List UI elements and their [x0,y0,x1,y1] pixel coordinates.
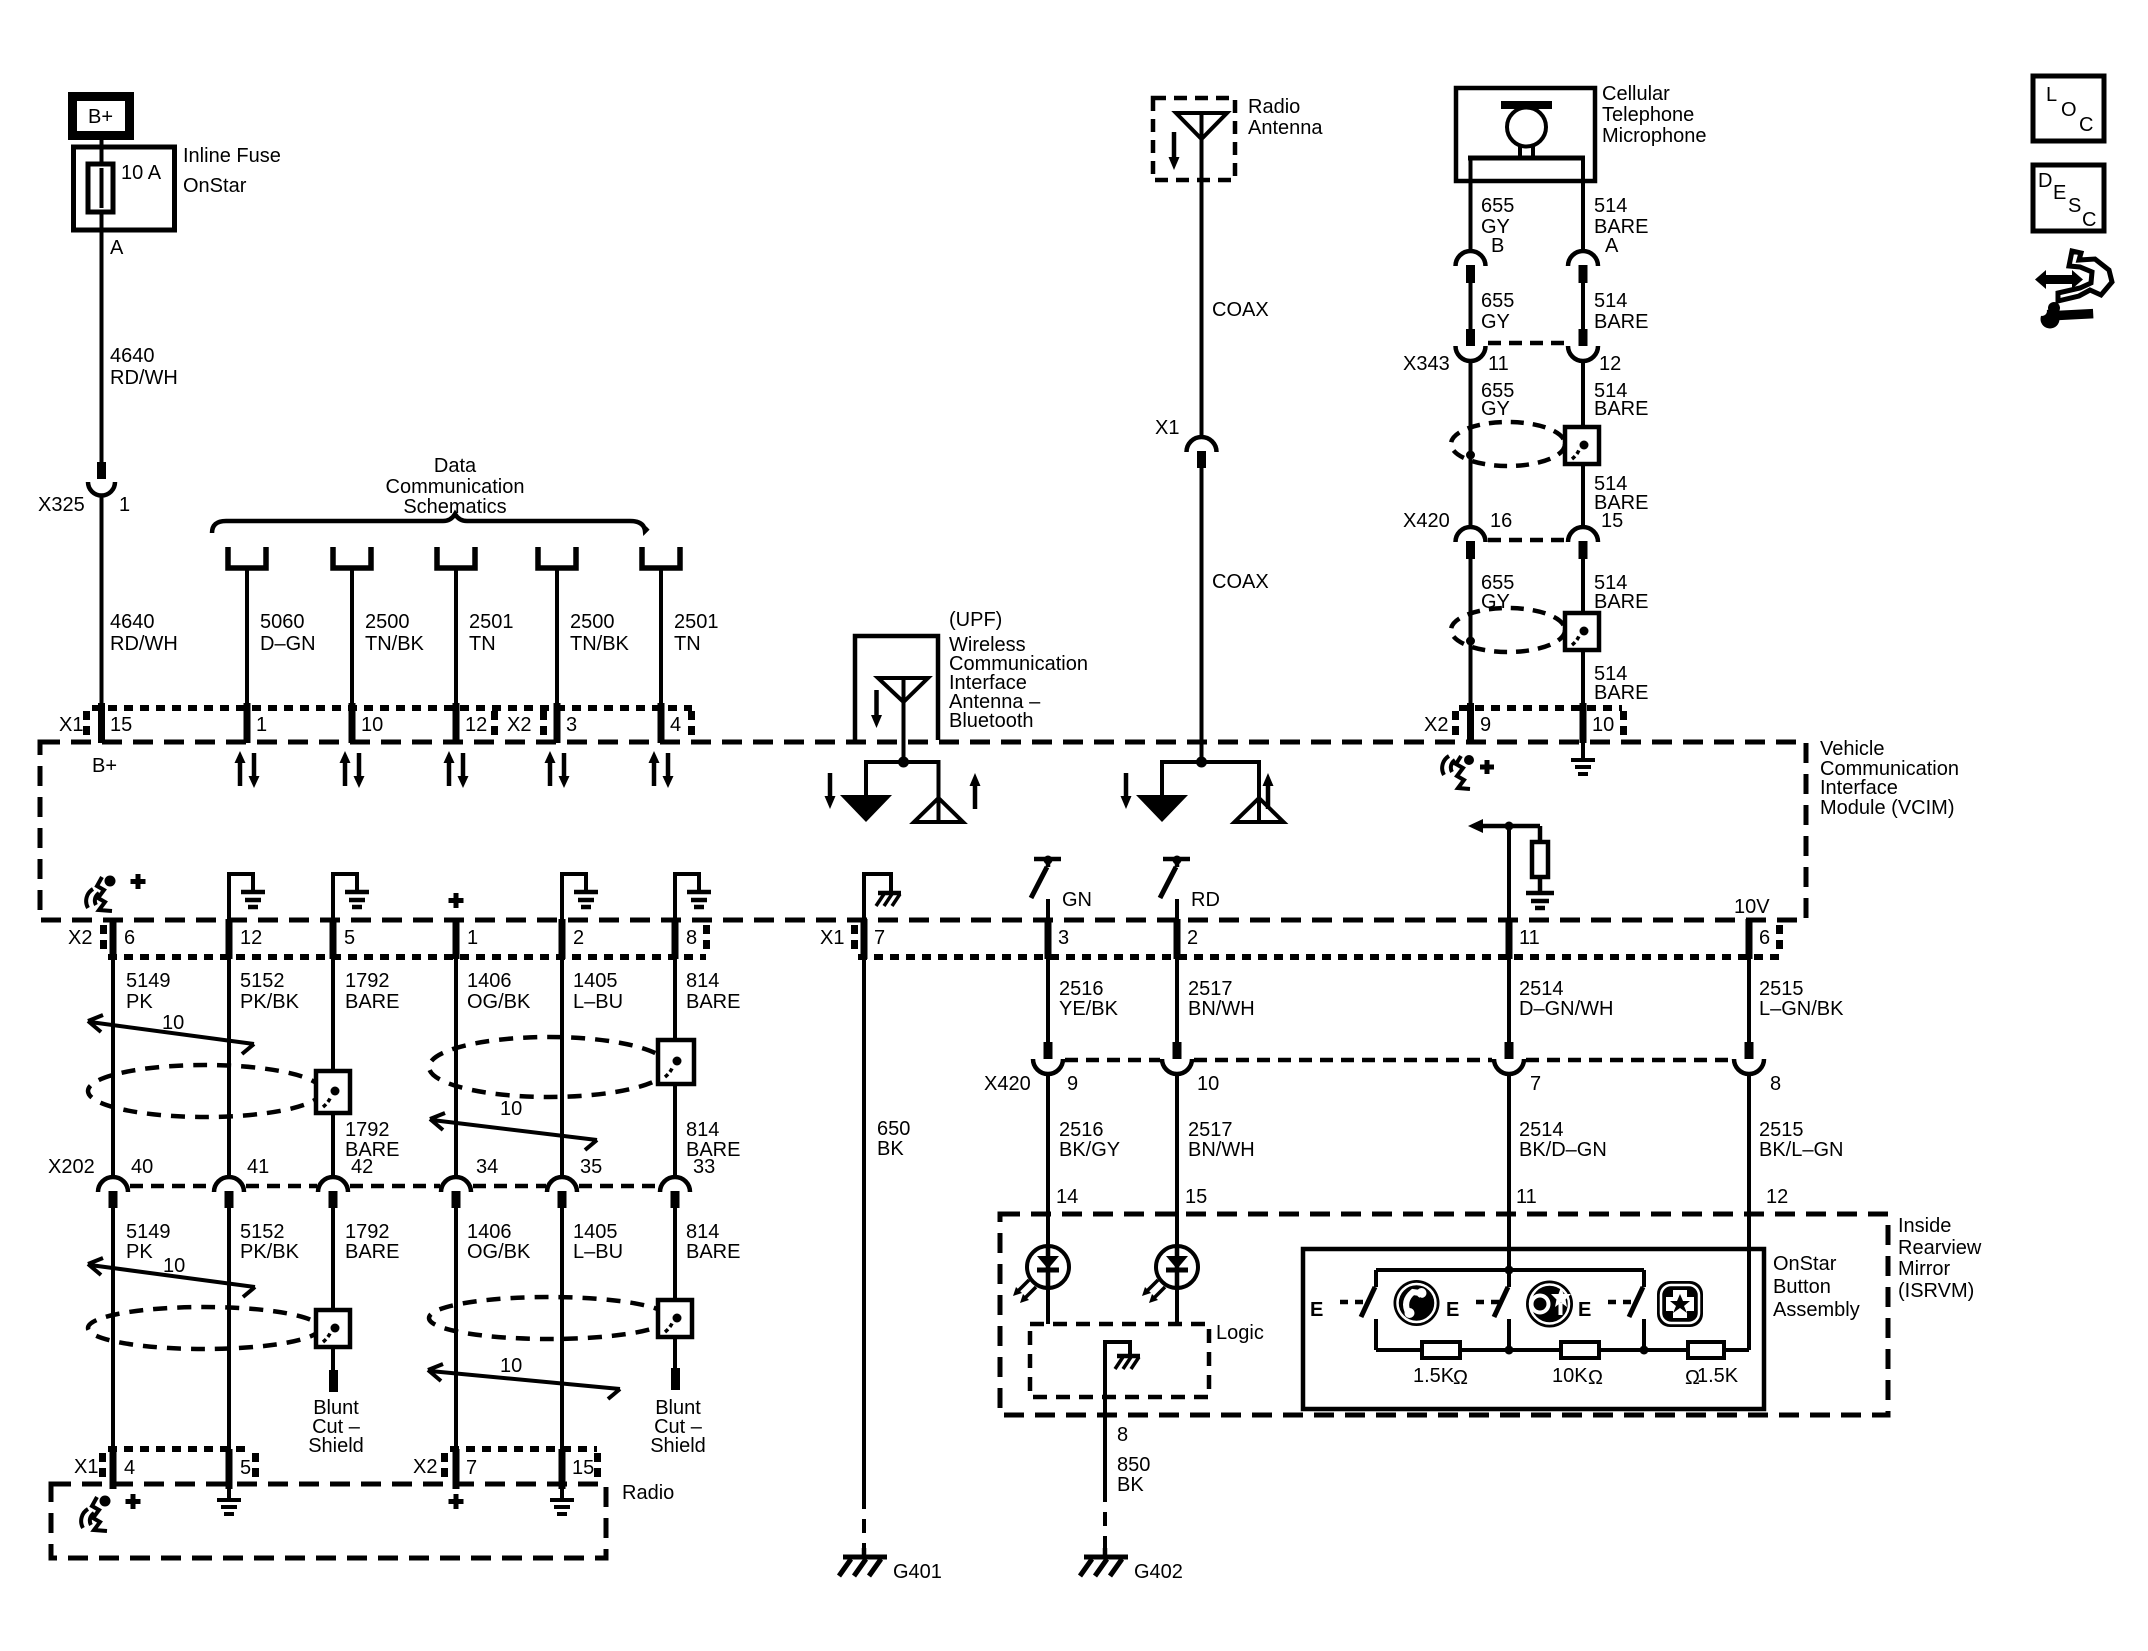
svg-text:Ω: Ω [1588,1367,1603,1389]
internal ground pin 8 [675,874,711,919]
svg-text:15: 15 [1185,1186,1207,1208]
svg-text:BARE: BARE [686,991,740,1013]
svg-text:Bluetooth: Bluetooth [949,710,1034,732]
svg-text:10 A: 10 A [121,162,162,184]
svg-text:Radio: Radio [1248,96,1300,118]
label 514 BARE (6) [1594,663,1648,704]
wire 1792 BARE upper [333,959,399,1177]
svg-text:Assembly: Assembly [1773,1299,1860,1321]
label 655 GY (3) [1481,380,1514,420]
colon divider before X2 [491,711,498,735]
svg-text:5149: 5149 [126,1221,171,1243]
pin 7 (650 BK) [864,919,885,959]
internal antenna pair (Bluetooth RX/TX) [840,762,963,822]
svg-text:BN/WH: BN/WH [1188,1139,1255,1161]
svg-text:1792: 1792 [345,1119,390,1141]
phone button icon [1394,1280,1440,1326]
wire 1792 BARE lower (blunt cut) [329,1208,399,1392]
colon divider after radio pin 5 [252,1453,259,1477]
svg-text:1792: 1792 [345,970,390,992]
svg-text:9: 9 [1067,1073,1078,1095]
shield termination box on 814 BARE (lower) [658,1300,692,1337]
pin 6 (2515 10V) [1749,919,1770,959]
svg-text:1792: 1792 [345,1221,390,1243]
pin 12 [456,703,487,743]
internal ground pin 2 [562,874,598,919]
bidirectional arrows pin 1 [235,751,260,788]
connector X343 pin 11 [1456,329,1486,361]
X420 row dashes (cellular) [1488,538,1566,543]
svg-text:514: 514 [1594,290,1627,312]
VCIM bottom right pin row dotted line [858,954,1779,960]
svg-text:16: 16 [1490,510,1512,532]
svg-text:5: 5 [344,927,355,949]
brace over data wires [212,514,648,533]
svg-text:655: 655 [1481,290,1514,312]
svg-text:Ω: Ω [1453,1367,1468,1389]
wire 655 GY to X343 [1469,283,1473,330]
svg-text:Inside: Inside [1898,1215,1951,1237]
label Blunt Cut Shield (right) [650,1397,706,1457]
svg-text:L: L [2046,84,2057,106]
svg-text:TN: TN [469,633,496,655]
svg-text:C: C [2079,114,2093,136]
svg-text:BARE: BARE [1594,398,1648,420]
label Wireless Communication Interface Antenna Bluetooth [949,609,1088,732]
colon divider after X2 cellular [1452,711,1459,735]
down arrow in radio antenna box [1169,132,1180,170]
label 4640 RD/WH upper [110,345,178,389]
svg-text:1: 1 [119,494,130,516]
svg-text:BARE: BARE [345,1241,399,1263]
svg-text:L–BU: L–BU [573,991,623,1013]
pin 1 [247,703,267,743]
plus sign internal pin 1 [449,893,464,908]
down arrow left of radio RX triangle [1121,773,1132,809]
pin 4 [661,703,681,743]
label 655 GY (1) [1481,195,1514,238]
svg-text:Shield: Shield [650,1435,706,1457]
battery feed B+ symbol [73,97,130,136]
svg-text:2501: 2501 [674,611,719,633]
internal ground pin 5 [333,874,369,919]
svg-text:Radio: Radio [622,1482,674,1504]
svg-text:7: 7 [874,927,885,949]
internal antenna pair (radio RX/TX) [1136,762,1284,822]
svg-text:Logic: Logic [1216,1322,1264,1344]
bidirectional arrows pin 3 [545,751,570,788]
svg-text:3: 3 [1058,927,1069,949]
Bluetooth antenna symbol [878,678,928,762]
svg-text:X343: X343 [1403,353,1450,375]
wire mic B (655 GY) upper [1469,158,1473,252]
wire 2517 BN/WH [1177,959,1255,1043]
pin 3 [557,703,577,743]
svg-text:GY: GY [1481,311,1510,333]
svg-text:9: 9 [1480,714,1491,736]
plus sign at left mic output [131,874,146,889]
wire LED green to logic [1046,1288,1050,1324]
label 514 BARE (2) [1594,290,1648,333]
svg-text:BARE: BARE [1594,311,1648,333]
down arrow in Bluetooth antenna box [871,690,882,728]
svg-text:2517: 2517 [1188,978,1233,1000]
pin 6 [113,919,135,959]
label Inside Rearview Mirror (ISRVM) [1898,1215,1982,1302]
resistor R2 10K [1552,1342,1603,1389]
node junction top rail / 2514 [1505,1266,1514,1275]
X202 row dashes [130,1184,659,1189]
pin 1 (bottom) [456,919,478,959]
svg-text:L–GN/BK: L–GN/BK [1759,998,1844,1020]
twisted pair shield ellipse (left upper) [88,1065,322,1117]
svg-text:11: 11 [1516,1186,1537,1208]
svg-text:RD/WH: RD/WH [110,367,178,389]
svg-text:A: A [1605,235,1619,257]
switch 3 (emergency button contact) [1629,1270,1644,1350]
connector X420 pin 15 [1568,527,1598,559]
wire 814 BARE upper [675,959,740,1177]
svg-text:BK: BK [877,1138,904,1160]
svg-text:Vehicle: Vehicle [1820,738,1885,760]
colon divider after X1 [83,711,90,735]
svg-text:15: 15 [572,1457,594,1479]
node junction Bluetooth antenna feed [898,757,909,768]
svg-text:OnStar: OnStar [183,175,247,197]
svg-text:E: E [2053,182,2066,204]
colon divider after pin 8 [703,925,710,949]
svg-text:4640: 4640 [110,345,155,367]
wire 1406 OG/BK upper [456,959,531,1177]
connector X202 pin 34 [441,1156,498,1208]
svg-text:BARE: BARE [686,1241,740,1263]
svg-text:X1: X1 [59,714,83,736]
svg-text:PK: PK [126,1241,153,1263]
svg-text:7: 7 [1530,1073,1541,1095]
X2 pin row dotted line (cellular) [1459,705,1622,711]
label 814 BARE mid [686,1119,740,1161]
svg-text:2501: 2501 [469,611,514,633]
svg-text:10V: 10V [1734,896,1770,918]
svg-text:15: 15 [110,714,132,736]
VCIM bottom left pin row dotted line [108,954,706,960]
svg-text:Interface: Interface [1820,777,1898,799]
svg-text:OG/BK: OG/BK [467,991,531,1013]
connector X202 pin 35 [547,1156,602,1208]
pin 9 [1471,703,1492,743]
svg-text:12: 12 [1599,353,1621,375]
colon divider after radio pin 15 [594,1453,601,1477]
wire 2515 BK/L-GN [1749,1072,1843,1350]
svg-text:X2: X2 [413,1456,437,1478]
label Cellular Telephone Microphone [1602,83,1707,147]
svg-text:650: 650 [877,1118,910,1140]
bidirectional arrows pin 4 [649,751,674,788]
svg-text:COAX: COAX [1212,571,1269,593]
svg-text:814: 814 [686,970,719,992]
label 514 BARE (1) [1594,195,1648,238]
OnStar button icon [1526,1281,1573,1328]
svg-text:5149: 5149 [126,970,171,992]
node shield tap on 655 GY [1466,451,1475,460]
svg-text:4: 4 [670,714,681,736]
svg-text:O: O [2061,99,2077,121]
label 514 BARE (5) [1594,572,1648,613]
switch 2 actuator E with dashes [1446,1299,1501,1321]
svg-text:12: 12 [1766,1186,1788,1208]
switch 1 actuator E with dashes [1310,1299,1365,1321]
wire 2514 BK/D-GN [1509,1072,1607,1270]
plus sign inside radio pin 7 [449,1494,464,1509]
svg-text:G402: G402 [1134,1561,1183,1583]
wire 5149 PK lower [113,1208,171,1449]
connector X202 pin 33 [660,1156,715,1208]
svg-text:TN: TN [674,633,701,655]
connector X420 pin 16 [1456,527,1486,559]
connector X202 pin 41 [214,1156,269,1208]
inline connector mic A [1568,251,1598,283]
label 655 GY (4) [1481,572,1514,613]
VCIM top pin row dotted line [92,705,692,711]
label 655 GY (2) [1481,290,1514,333]
svg-text:1406: 1406 [467,1221,512,1243]
connector X325 pin 1 [38,462,130,516]
svg-text:BK/GY: BK/GY [1059,1139,1120,1161]
switch 3 actuator E with dashes [1578,1299,1633,1321]
svg-text:Communication: Communication [386,476,525,498]
DESC reference box [2033,165,2104,231]
colon divider after X2 bottom [100,925,107,949]
ground inside radio pin 15 [550,1489,574,1514]
label 514 BARE (3) [1594,380,1648,420]
svg-text:10: 10 [500,1355,522,1377]
svg-text:35: 35 [580,1156,602,1178]
pin 3 (2516) [1048,919,1069,959]
svg-text:L–BU: L–BU [573,1241,623,1263]
shield count arrow 10 (right upper) [430,1098,597,1150]
Bluetooth antenna box (UPF) [855,636,938,740]
pin 11 (2514) [1509,919,1540,959]
X420 ISRVM row dashes [1065,1058,1732,1063]
X343 row dashes [1488,341,1566,346]
svg-text:C: C [2082,209,2096,231]
wire mic A (514 BARE) upper [1581,158,1585,252]
svg-text:RD: RD [1191,889,1220,911]
svg-text:B: B [1491,235,1504,257]
ground G402 [1080,1548,1183,1583]
twisted pair shield ellipse (right upper) [429,1037,669,1097]
wire X325 to VCIM X1-15 (4640 RD/WH) [100,495,104,706]
pin 2 (bottom) [562,919,584,959]
label OnStar Button Assembly [1773,1253,1860,1321]
radio antenna symbol [1176,113,1227,436]
radio pin row dotted line right [450,1446,597,1452]
wire 2516 BK/GY [1048,1072,1120,1247]
svg-text:Inline Fuse: Inline Fuse [183,145,281,167]
shield count arrow 10 (right lower) [428,1355,620,1399]
svg-text:5: 5 [240,1457,251,1479]
shield termination box on 1792 BARE (upper) [316,1071,350,1113]
internal top rail [1376,1268,1644,1272]
inline connector mic B [1456,251,1486,283]
resistor R3 1.5K [1685,1342,1739,1389]
wire 1405 L-BU lower [562,1208,623,1449]
svg-text:Module (VCIM): Module (VCIM) [1820,797,1954,819]
up arrow right of radio TX triangle [1263,773,1274,809]
svg-text:BARE: BARE [1594,682,1648,704]
wire 850 BK to G402 [1105,1397,1150,1548]
svg-text:BARE: BARE [1594,591,1648,613]
label 514 BARE (4) [1594,473,1648,514]
svg-text:8: 8 [1770,1073,1781,1095]
svg-text:G401: G401 [893,1561,942,1583]
wire 814 BARE lower (blunt cut) [671,1208,740,1390]
svg-text:2: 2 [1187,927,1198,949]
ground inside radio pin 5 [217,1489,241,1514]
ISRVM dashed box [1000,1214,1888,1415]
ground G401 [839,1548,942,1583]
label Vehicle Communication Interface Module (VCIM) [1820,738,1959,819]
pin 5 (bottom) [333,919,355,959]
off-page connector wire 2501 TN (a) [437,547,514,706]
svg-text:BK: BK [1117,1474,1144,1496]
connector X420 pin 7 [1494,1042,1541,1095]
shield termination box (cellular lower) [1565,613,1599,650]
label 1792 BARE mid [345,1119,399,1161]
svg-text:OG/BK: OG/BK [467,1241,531,1263]
shield count arrow 10 (left upper) [88,1012,254,1054]
svg-text:2514: 2514 [1519,1119,1564,1141]
off-page connector wire 5060 D-GN [228,547,316,706]
svg-text:2500: 2500 [365,611,410,633]
Cellular Telephone Microphone box [1456,88,1595,181]
svg-text:1405: 1405 [573,970,618,992]
svg-text:D: D [2038,170,2052,192]
svg-text:E: E [1446,1299,1459,1321]
Radio dashed box [51,1484,606,1558]
svg-text:850: 850 [1117,1454,1150,1476]
svg-text:PK/BK: PK/BK [240,1241,300,1263]
connector X1 (coax inline) [1155,417,1217,468]
svg-text:BN/WH: BN/WH [1188,998,1255,1020]
emergency button icon (cross with star) [1657,1281,1703,1327]
wire 2517 BN/WH lower [1177,1072,1255,1247]
svg-text:X202: X202 [48,1156,95,1178]
pin 2 (2517) [1177,919,1198,959]
svg-text:TN/BK: TN/BK [570,633,630,655]
node shield tap on 655 GY lower [1466,637,1475,646]
svg-text:2514: 2514 [1519,978,1564,1000]
svg-text:B+: B+ [92,755,117,777]
node junction bottom rail / switch 2 [1505,1346,1514,1355]
svg-text:655: 655 [1481,195,1514,217]
svg-text:Telephone: Telephone [1602,104,1694,126]
connector X343 pin 12 [1568,329,1598,361]
svg-text:OnStar: OnStar [1773,1253,1837,1275]
svg-text:8: 8 [686,927,697,949]
connector X420 pin 9 [1033,1042,1078,1095]
pin 15 (B+ feed into VCIM) [102,703,133,743]
svg-text:Button: Button [1773,1276,1831,1298]
pin 12 (bottom) [229,919,262,959]
svg-text:4: 4 [124,1457,135,1479]
svg-text:Rearview: Rearview [1898,1237,1982,1259]
svg-text:3: 3 [566,714,577,736]
internal ground pin 12 [229,874,265,919]
pin 10 (cellular) [1583,703,1614,743]
svg-text:D–GN/WH: D–GN/WH [1519,998,1613,1020]
svg-text:TN/BK: TN/BK [365,633,425,655]
internal pull-up resistor with arrow (2514 line) [1468,819,1554,919]
colon divider after X1 bottom [851,925,858,949]
svg-text:Mirror: Mirror [1898,1258,1951,1280]
svg-text:Shield: Shield [308,1435,364,1457]
wire B+ to X325 (circuit 4640 RD/WH) [100,140,104,462]
svg-text:BK/D–GN: BK/D–GN [1519,1139,1607,1161]
svg-text:PK/BK: PK/BK [240,991,300,1013]
switch 2 (OnStar button contact) [1494,1270,1509,1350]
svg-text:5060: 5060 [260,611,305,633]
wire 2514 D-GN/WH [1509,959,1613,1043]
svg-text:2515: 2515 [1759,978,1804,1000]
svg-text:7: 7 [466,1457,477,1479]
svg-text:6: 6 [124,927,135,949]
LOC reference box [2033,76,2104,141]
bidirectional arrows pin 12 [444,751,469,788]
switch GN (internal) [1031,856,1092,920]
svg-text:X1: X1 [1155,417,1179,439]
pin 10 [352,703,383,743]
svg-text:10K: 10K [1552,1365,1588,1387]
svg-text:14: 14 [1056,1186,1078,1208]
LED indicator (red) [1142,1246,1198,1303]
svg-text:X1: X1 [820,927,844,949]
svg-text:10: 10 [361,714,383,736]
svg-text:42: 42 [351,1156,373,1178]
svg-text:B+: B+ [88,106,113,128]
svg-text:D–GN: D–GN [260,633,316,655]
label 4640 RD/WH lower [110,611,178,655]
svg-text:11: 11 [1519,927,1540,949]
svg-text:GN: GN [1062,889,1092,911]
wire 1405 L-BU upper [562,959,623,1177]
colon divider after X2 radio [441,1453,448,1477]
microphone icon inside VCIM (left, mic + out) [86,876,115,912]
svg-text:BK/L–GN: BK/L–GN [1759,1139,1843,1161]
svg-text:5152: 5152 [240,970,285,992]
colon divider after pin 10 [1620,711,1627,735]
shield ellipse cellular (upper) [1451,422,1565,466]
wire coax to VCIM (COAX) [1200,468,1204,762]
svg-text:2516: 2516 [1059,1119,1104,1141]
svg-text:1406: 1406 [467,970,512,992]
svg-text:12: 12 [240,927,262,949]
svg-text:514: 514 [1594,195,1627,217]
plus sign at radio mic input [126,1494,141,1509]
svg-text:15: 15 [1601,510,1623,532]
wire 514 BARE X343 to X420 [1581,359,1585,528]
switch RD (internal) [1160,856,1220,920]
bidirectional arrows pin 10 [340,751,365,788]
svg-text:41: 41 [247,1156,269,1178]
wire 2515 L-GN/BK [1749,959,1844,1043]
wire 1406 OG/BK lower [456,1208,531,1449]
chassis ground inside logic box [1105,1342,1140,1397]
off-page connector wire 2500 TN/BK (b) [538,547,630,706]
svg-text:X2: X2 [507,714,531,736]
LED indicator (green) [1013,1246,1069,1303]
svg-text:11: 11 [1488,353,1509,375]
